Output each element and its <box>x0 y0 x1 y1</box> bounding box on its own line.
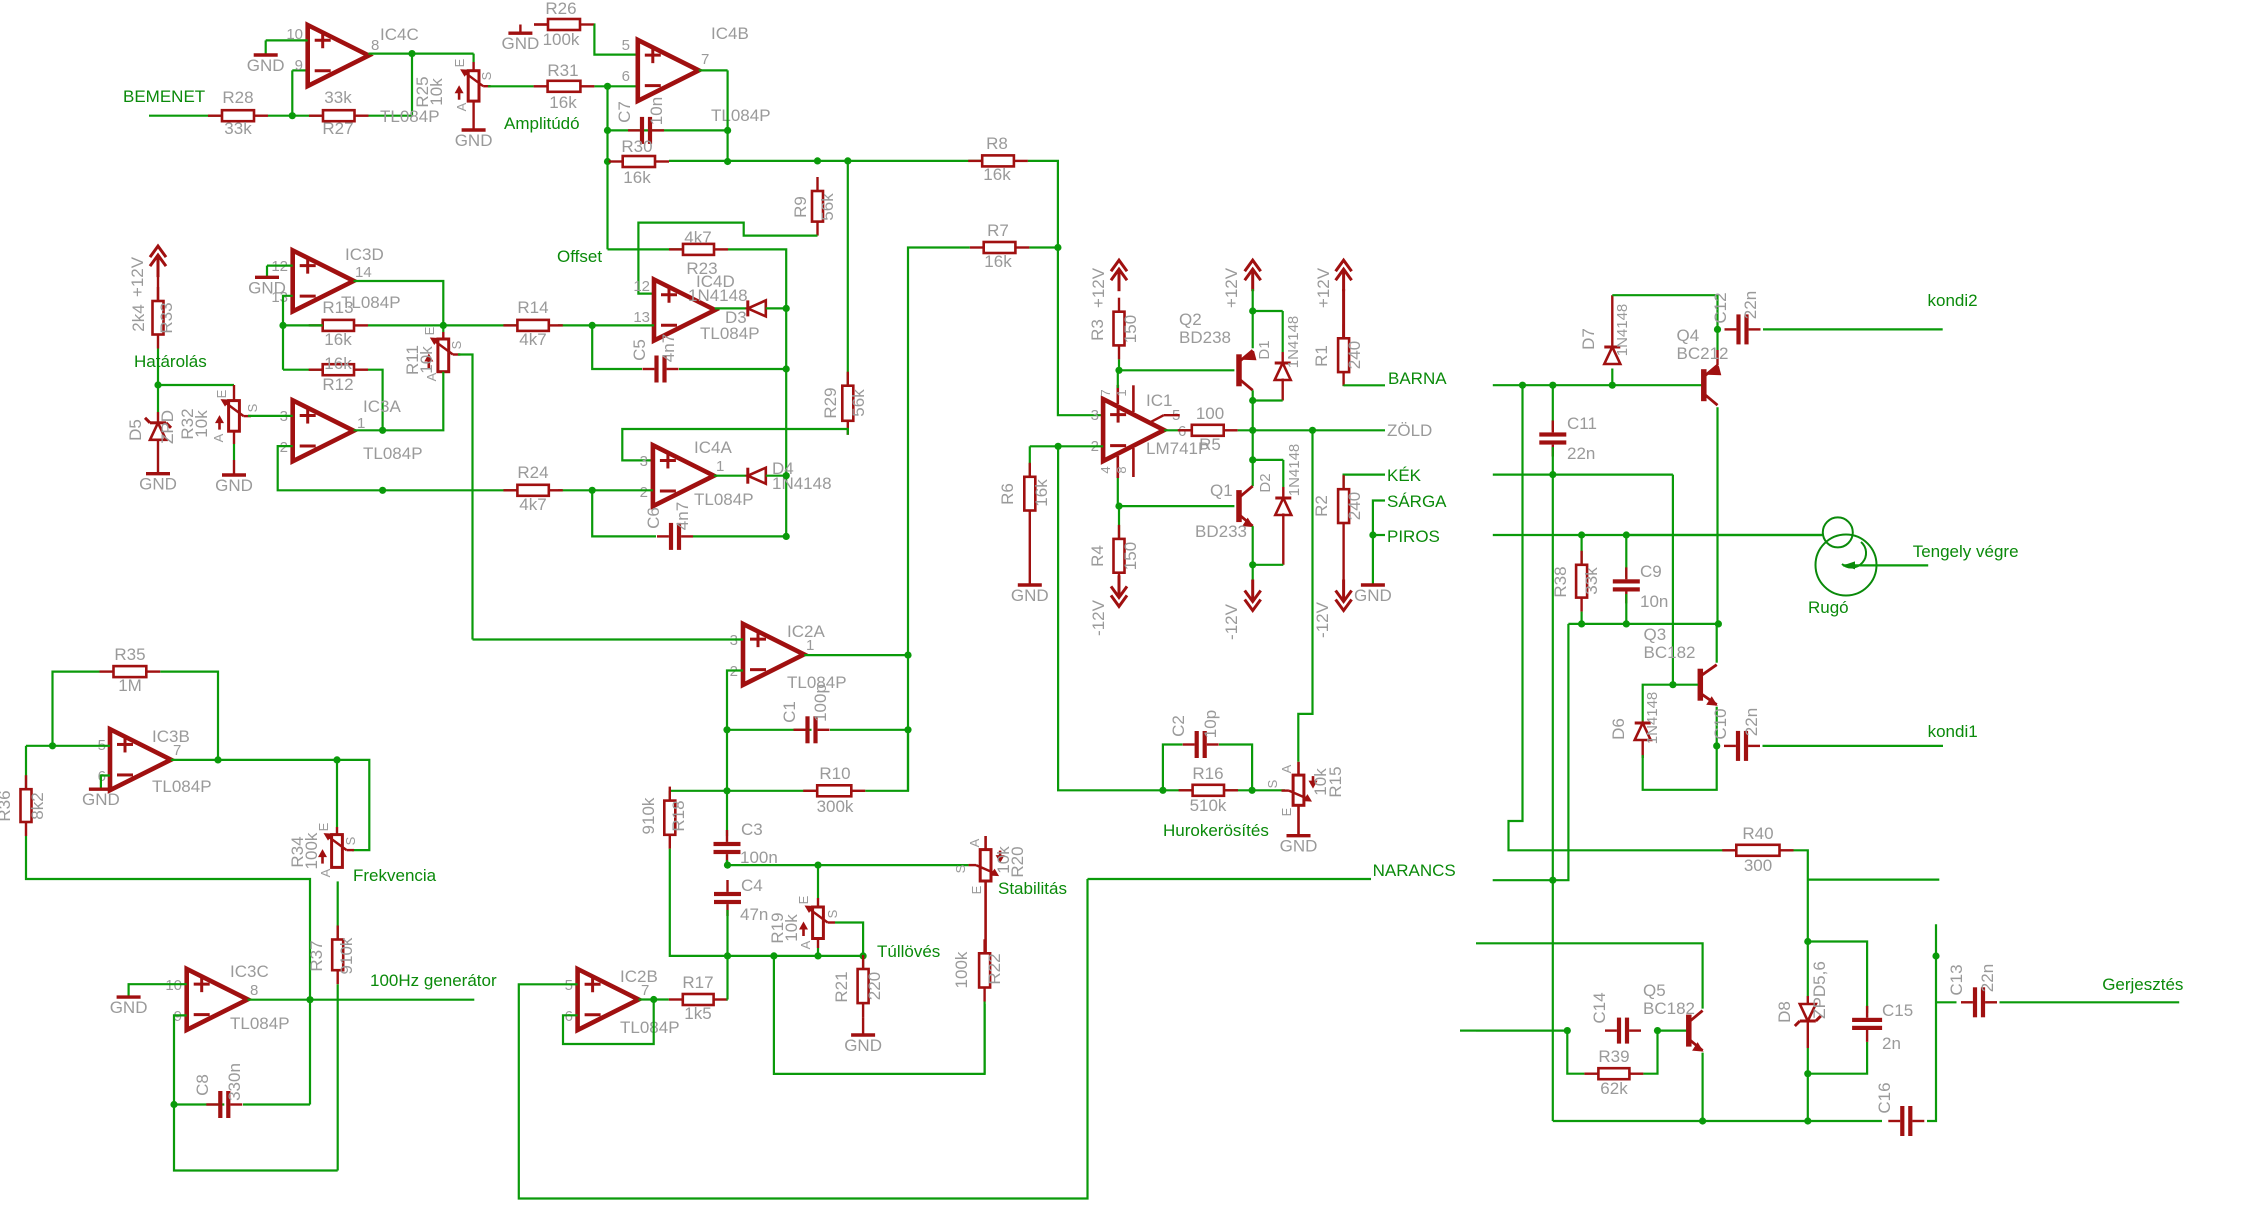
resistor R38 33k vertical <box>1580 535 1582 565</box>
svg-text:ZPD5,6: ZPD5,6 <box>1810 961 1829 1019</box>
wire ZOLD rail down to R15 A <box>1298 430 1312 762</box>
resistor R30 16k <box>609 160 623 162</box>
wire BARNA right rail <box>1493 384 1702 386</box>
node C1 right <box>904 726 911 733</box>
node C4/R17 junction <box>724 952 731 959</box>
svg-text:R28: R28 <box>222 88 253 107</box>
node R24/C6/pin2 <box>589 487 596 494</box>
resistor R21 220 <box>862 956 864 969</box>
wire C10 to kondi1 <box>1763 745 1944 747</box>
svg-text:100k: 100k <box>952 951 971 988</box>
IC1 power pins 4/8 down <box>1117 456 1120 478</box>
op-amp IC3B <box>110 729 171 790</box>
svg-text:6: 6 <box>622 68 630 85</box>
svg-text:7: 7 <box>641 982 649 999</box>
node IC3A out <box>379 427 386 434</box>
wire node to R10 <box>727 790 817 792</box>
svg-text:E: E <box>796 895 811 904</box>
wire R22 bottom <box>983 1002 985 1074</box>
diode D1 1N4148 <box>1253 310 1283 312</box>
wire output to pot R25 <box>473 54 475 62</box>
svg-text:3: 3 <box>640 453 648 470</box>
svg-text:Q5: Q5 <box>1643 981 1666 1000</box>
svg-text:1: 1 <box>716 458 724 475</box>
ground GND at IC4C <box>254 53 278 56</box>
diode D2 1N4148 <box>1253 459 1284 461</box>
svg-text:8: 8 <box>250 982 258 999</box>
svg-text:TL084P: TL084P <box>620 1018 680 1037</box>
svg-text:R21: R21 <box>832 971 851 1002</box>
wire D2 bottom link <box>1253 564 1284 566</box>
node R30 left <box>604 158 611 165</box>
resistor R35 1M <box>100 670 114 672</box>
wire coil to Tengely vegre <box>1843 564 1928 566</box>
svg-text:Offset: Offset <box>557 247 602 266</box>
node IC3B out <box>214 756 221 763</box>
wire KEK down to Q3 base <box>1672 475 1674 685</box>
svg-text:R26: R26 <box>545 0 576 18</box>
svg-text:GND: GND <box>82 790 120 809</box>
node R10/R18/C3 junction <box>723 787 730 794</box>
svg-text:33k: 33k <box>1582 567 1601 595</box>
transistor Q1 BD233 NPN <box>1236 490 1242 522</box>
wire Q3 base <box>1673 684 1698 686</box>
svg-text:33k: 33k <box>224 119 252 138</box>
wire SARGA down to PIROS <box>1373 501 1385 536</box>
wire C8 right up to 879 row <box>309 1000 311 1105</box>
node junction R28/R27/IC4C-inv <box>289 112 296 119</box>
svg-text:100Hz generátor: 100Hz generátor <box>370 971 497 990</box>
svg-text:10n: 10n <box>1640 592 1668 611</box>
svg-text:Túllövés: Túllövés <box>877 942 940 961</box>
svg-text:C7: C7 <box>615 101 634 123</box>
resistor R17 1k5 <box>669 998 683 1000</box>
capacitor C1 100p <box>727 729 812 731</box>
svg-text:R6: R6 <box>998 483 1017 505</box>
svg-text:GND: GND <box>1354 586 1392 605</box>
wire IC3C output row 100Hz <box>248 999 475 1001</box>
wire IC2A + input from offset pot <box>473 638 744 640</box>
svg-text:IC3D: IC3D <box>345 245 384 264</box>
node Q4 collector / C12 <box>1714 326 1721 333</box>
svg-text:R30: R30 <box>621 137 652 156</box>
svg-text:1N4148: 1N4148 <box>1614 304 1631 357</box>
svg-text:10p: 10p <box>1201 710 1220 738</box>
svg-text:D7: D7 <box>1579 328 1598 350</box>
resistor R1 240 <box>1336 260 1352 271</box>
svg-text:330n: 330n <box>225 1063 244 1101</box>
node Q3 emitter / C10 <box>1713 742 1720 749</box>
svg-text:Határolás: Határolás <box>134 352 207 371</box>
svg-text:6: 6 <box>565 1008 573 1025</box>
node ZOLD branch <box>1309 427 1316 434</box>
svg-text:R29: R29 <box>821 387 840 418</box>
svg-text:14: 14 <box>355 264 372 281</box>
ground GND at IC3B <box>89 788 113 791</box>
wire R40 right down <box>1794 850 1808 941</box>
resistor R36 8k2 vertical <box>25 746 27 789</box>
svg-text:1: 1 <box>1114 389 1129 396</box>
capacitor C5 4n7 <box>592 325 642 369</box>
node NARANCS/KEK-rail junction <box>1549 877 1556 884</box>
resistor R37 910k vertical <box>337 926 339 940</box>
svg-text:C12: C12 <box>1711 292 1730 323</box>
wire R35 left loop to + input <box>53 672 100 746</box>
svg-text:1N4148: 1N4148 <box>1644 692 1661 745</box>
wire IC3D + to GND <box>267 265 293 267</box>
wire node to R32 <box>158 384 234 386</box>
node R19 E junction <box>814 862 821 869</box>
wire C16 row <box>1553 1120 1882 1122</box>
svg-text:C11: C11 <box>1567 414 1597 433</box>
svg-text:10k: 10k <box>782 914 801 942</box>
svg-text:GND: GND <box>1011 586 1049 605</box>
ground GND under PIROS <box>1361 583 1385 586</box>
svg-text:IC4B: IC4B <box>711 24 749 43</box>
wire IC4C output <box>369 52 474 54</box>
wire summing row to R8 <box>669 160 982 162</box>
wire to IC4C inverting input <box>291 70 293 115</box>
node C8 left <box>170 1101 177 1108</box>
svg-text:R16: R16 <box>1192 764 1223 783</box>
svg-text:BARNA: BARNA <box>1388 369 1447 388</box>
svg-text:2n: 2n <box>1882 1034 1901 1053</box>
wire Q5 collector rail <box>1460 1029 1476 1031</box>
wire KEK right rail <box>1493 474 1673 476</box>
svg-text:C9: C9 <box>1640 562 1662 581</box>
node IC3B + input <box>49 742 56 749</box>
node IC2B out <box>650 996 657 1003</box>
svg-text:16k: 16k <box>324 354 352 373</box>
svg-text:R10: R10 <box>819 764 850 783</box>
wire Q1 base <box>1119 505 1234 507</box>
svg-text:R40: R40 <box>1742 824 1773 843</box>
node Q1 base / R4 <box>1115 503 1122 510</box>
svg-text:R36: R36 <box>0 790 14 821</box>
node C6 right <box>783 533 790 540</box>
ground GND under R15 <box>1287 834 1311 837</box>
op-amp IC1 LM741P <box>1103 399 1164 461</box>
wire IC3B - to GND <box>101 776 110 790</box>
op-amp IC4C <box>308 25 369 86</box>
svg-text:R15: R15 <box>1326 766 1345 797</box>
svg-text:1: 1 <box>806 637 814 654</box>
wire R37 bottom down to integrator loop <box>337 984 339 1170</box>
transistor Q2 BD238 PNP <box>1236 354 1242 386</box>
svg-text:TL084P: TL084P <box>380 107 440 126</box>
transistor Q5 BC182 NPN <box>1686 1015 1692 1047</box>
svg-text:S: S <box>343 836 358 845</box>
resistor R27 <box>309 114 323 116</box>
op-amp IC3D <box>293 250 354 311</box>
node R34 E branch <box>333 756 340 763</box>
potentiometer R19 10k Tullovess <box>817 865 819 898</box>
wire Q3 emitter down <box>1716 707 1718 746</box>
resistor R8 16k <box>968 160 982 162</box>
wire R8 right down to R7 node <box>1028 161 1058 248</box>
wire output rail to pot R34 <box>218 759 337 761</box>
wire R38/C9 row left corner down <box>1555 624 1568 880</box>
svg-text:Rugó: Rugó <box>1808 598 1849 617</box>
resistor R4 150 <box>1118 506 1120 539</box>
wire R13 node down to R12 <box>282 325 284 369</box>
svg-text:Q3: Q3 <box>1644 625 1667 644</box>
resistor R2 240 <box>1342 475 1344 489</box>
power +12V to Q2 emitter <box>1245 260 1261 271</box>
wire R32 wiper to IC3A + input <box>248 415 293 417</box>
wire Q3 collector <box>1716 624 1718 663</box>
svg-text:ZÖLD: ZÖLD <box>1387 421 1432 440</box>
wire Q1 emitter down <box>1252 526 1254 601</box>
node PIROS R38 <box>1578 531 1585 538</box>
node D2 branch <box>1249 456 1256 463</box>
zener diode D5 ZPD <box>157 385 159 412</box>
svg-text:R5: R5 <box>1199 435 1221 454</box>
svg-text:100: 100 <box>1196 404 1224 423</box>
svg-text:8k2: 8k2 <box>28 792 47 819</box>
node C1 left <box>723 726 730 733</box>
svg-text:4n7: 4n7 <box>659 334 678 362</box>
wire R24 row <box>383 489 518 491</box>
svg-text:GND: GND <box>215 476 253 495</box>
svg-text:1N4148: 1N4148 <box>1285 316 1302 369</box>
wire IC3D - input loop <box>283 296 293 326</box>
diode D4 1N4148 <box>714 475 748 477</box>
wire R20 E down to R22 <box>984 881 987 953</box>
svg-text:BC182: BC182 <box>1644 643 1696 662</box>
svg-text:R9: R9 <box>791 196 810 218</box>
svg-text:150: 150 <box>1121 315 1140 343</box>
wire R32 A to GND <box>233 431 235 444</box>
svg-text:R12: R12 <box>322 375 353 394</box>
svg-text:E: E <box>1279 807 1294 816</box>
svg-text:TL084P: TL084P <box>152 777 212 796</box>
svg-text:300: 300 <box>1744 856 1772 875</box>
svg-text:10k: 10k <box>427 78 446 106</box>
svg-text:510k: 510k <box>1190 796 1227 815</box>
svg-text:100p: 100p <box>811 684 830 722</box>
wire IC4C + input to GND <box>266 39 308 41</box>
capacitor C10 22n <box>1724 745 1736 747</box>
svg-text:10k: 10k <box>192 410 211 438</box>
wire IC1 - input row <box>1030 445 1103 447</box>
ground GND at IC3C <box>117 995 141 998</box>
capacitor C4 47n <box>726 880 728 892</box>
resistor R39 62k <box>1584 1072 1598 1074</box>
svg-text:C13: C13 <box>1947 964 1966 995</box>
svg-text:7: 7 <box>1098 389 1113 396</box>
svg-text:GND: GND <box>844 1036 882 1055</box>
node D2 bottom <box>1249 561 1256 568</box>
svg-text:A: A <box>967 838 982 847</box>
svg-text:NARANCS: NARANCS <box>1373 861 1456 880</box>
power -12V under Q1 <box>1245 600 1261 611</box>
svg-text:S: S <box>449 340 464 349</box>
svg-text:R2: R2 <box>1312 495 1331 517</box>
wire R7 right to node <box>1029 246 1058 248</box>
resistor R7 16k <box>970 246 984 248</box>
svg-text:GND: GND <box>455 131 493 150</box>
svg-text:300k: 300k <box>817 797 854 816</box>
svg-text:C6: C6 <box>644 507 663 529</box>
svg-text:C1: C1 <box>780 701 799 723</box>
svg-text:R1: R1 <box>1312 345 1331 367</box>
resistor R24 4k7 <box>503 489 517 491</box>
svg-text:E: E <box>969 885 984 894</box>
wire Q5 emitter down to C16 row <box>1701 1053 1703 1121</box>
wire IC2B + input from bottom rail <box>519 879 1088 1199</box>
IC1 pin5 offset stub <box>1149 415 1163 423</box>
capacitor C14 <box>1605 1029 1617 1031</box>
svg-text:910k: 910k <box>639 797 658 834</box>
svg-text:S: S <box>1265 779 1280 788</box>
svg-text:100k: 100k <box>543 30 580 49</box>
transistor Q4 BC212 PNP <box>1716 329 1718 350</box>
wire C14 left down to R39 <box>1567 1031 1584 1074</box>
svg-text:Q1: Q1 <box>1210 481 1233 500</box>
wire R16 right to R15 wiper <box>1252 789 1285 791</box>
svg-text:GND: GND <box>502 34 540 53</box>
svg-text:5: 5 <box>622 37 630 54</box>
svg-text:A: A <box>1279 764 1294 773</box>
node R21 top <box>860 952 867 959</box>
coil Rugo spring symbol <box>1823 517 1853 547</box>
svg-text:22n: 22n <box>1742 708 1761 736</box>
svg-text:47n: 47n <box>740 905 768 924</box>
svg-text:2: 2 <box>640 484 648 501</box>
svg-text:240: 240 <box>1345 341 1364 369</box>
diode D3 1N4148 <box>715 307 748 309</box>
svg-text:R14: R14 <box>517 298 548 317</box>
wire IC2B output <box>639 998 669 1000</box>
capacitor C13 22n <box>1961 1001 1973 1003</box>
capacitor C2 10p <box>1163 745 1183 791</box>
wire output row to ZOLD <box>1238 429 1385 431</box>
capacitor C15 2n <box>1866 1006 1868 1018</box>
node BARNA vert1 <box>1519 382 1526 389</box>
capacitor C9 10n <box>1625 535 1627 577</box>
wire D1 bottom to Q2 collector <box>1253 399 1283 401</box>
wire IC3D output feedback <box>354 281 444 325</box>
svg-text:IC3C: IC3C <box>230 962 269 981</box>
svg-text:D5: D5 <box>126 419 145 441</box>
svg-text:10: 10 <box>165 977 182 994</box>
node 100Hz row <box>306 996 313 1003</box>
wire R31 to IC4B inv node <box>594 85 637 87</box>
wire Q5 collector to rail <box>1476 1029 1567 1031</box>
svg-text:E: E <box>214 389 229 398</box>
wire R36 bottom row <box>26 836 310 1000</box>
svg-text:7: 7 <box>173 742 181 759</box>
svg-text:R17: R17 <box>682 973 713 992</box>
wire C8 left loop to R37 <box>174 1105 338 1171</box>
ground GND under R25 <box>462 128 486 131</box>
svg-text:+12V: +12V <box>1314 267 1333 308</box>
svg-text:E: E <box>422 326 437 335</box>
resistor R10 300k <box>803 790 817 792</box>
wire to S loop <box>337 760 369 850</box>
wire node to R14 <box>443 324 517 326</box>
IC1 power pins 7/1 up <box>1117 385 1120 404</box>
capacitor C16 <box>1888 1120 1900 1122</box>
svg-text:R8: R8 <box>986 134 1008 153</box>
node R33/D5/R32 <box>154 381 161 388</box>
resistor R29 56k vertical <box>847 161 849 386</box>
node R13 left <box>279 322 286 329</box>
resistor R31 <box>534 85 548 87</box>
wire R28 to R27 node <box>268 115 323 117</box>
svg-text:C15: C15 <box>1882 1001 1913 1020</box>
resistor R12 16k <box>309 369 323 371</box>
svg-text:4: 4 <box>1098 466 1113 473</box>
wire R18 bottom to Tullovess row <box>670 849 728 956</box>
svg-text:2: 2 <box>280 439 288 456</box>
wire R1 to BARNA <box>1342 384 1344 387</box>
svg-text:R38: R38 <box>1551 566 1570 597</box>
node Q5 emitter on C16 row <box>1699 1117 1706 1124</box>
wire R9 bottom zigzag to R23 net <box>638 223 817 294</box>
resistor R26 <box>534 23 548 25</box>
node R7/R8 junction <box>1054 244 1061 251</box>
wire BEMENET input <box>149 115 222 117</box>
svg-text:22n: 22n <box>1741 291 1760 319</box>
svg-text:S: S <box>825 909 840 918</box>
resistor R33 2k4 <box>157 277 159 301</box>
node C14 right <box>1654 1027 1661 1034</box>
node D3 cathode <box>783 305 790 312</box>
op-amp IC4A <box>653 445 714 506</box>
ground GND under D5 <box>146 472 170 475</box>
svg-text:TL084P: TL084P <box>363 444 423 463</box>
svg-text:C2: C2 <box>1169 715 1188 737</box>
svg-text:R18: R18 <box>669 800 688 831</box>
wire R29 bottom to IC4A + input <box>622 429 848 460</box>
capacitor C6 4n7 <box>592 490 656 536</box>
wire node down to IC1 + input <box>1058 248 1103 416</box>
svg-text:C8: C8 <box>193 1074 212 1096</box>
svg-text:PIROS: PIROS <box>1387 527 1440 546</box>
wire base node to D6 top <box>1643 685 1673 723</box>
wire IC3B output <box>171 759 218 761</box>
wire PIROS right rail <box>1493 534 1823 536</box>
node D4 cathode on feedback rail <box>783 472 790 479</box>
wire IC4B inv node down to C7/R30 <box>606 86 608 249</box>
svg-text:16k: 16k <box>984 252 1012 271</box>
resistor R6 16k vertical <box>1029 446 1031 477</box>
wire IC3A - input loop to R24 row <box>278 446 383 490</box>
diode D7 1N4148 <box>1611 369 1613 386</box>
node D8 bottom <box>1804 1070 1811 1077</box>
wire R12 right down to IC3A output <box>368 370 383 431</box>
node IC4B inverting junction <box>604 83 611 90</box>
wire Q2 collector down to output row <box>1252 390 1254 430</box>
power +12V to R3 <box>1111 260 1127 271</box>
svg-text:12: 12 <box>633 278 650 295</box>
svg-text:R39: R39 <box>1598 1047 1629 1066</box>
resistor R18 910k vertical <box>669 791 671 801</box>
svg-text:R22: R22 <box>985 953 1004 984</box>
node IC4C output junction <box>408 50 415 57</box>
svg-text:D2: D2 <box>1257 473 1274 492</box>
wire IC2A output to R7 rail <box>804 654 908 656</box>
wire Q1 collector <box>1252 430 1254 486</box>
wire Q2 base <box>1119 369 1234 371</box>
svg-text:S: S <box>245 403 260 412</box>
svg-text:E: E <box>452 58 467 67</box>
svg-text:A: A <box>454 102 469 111</box>
svg-text:910k: 910k <box>337 937 356 974</box>
wire R33 to D5 node <box>157 349 159 386</box>
